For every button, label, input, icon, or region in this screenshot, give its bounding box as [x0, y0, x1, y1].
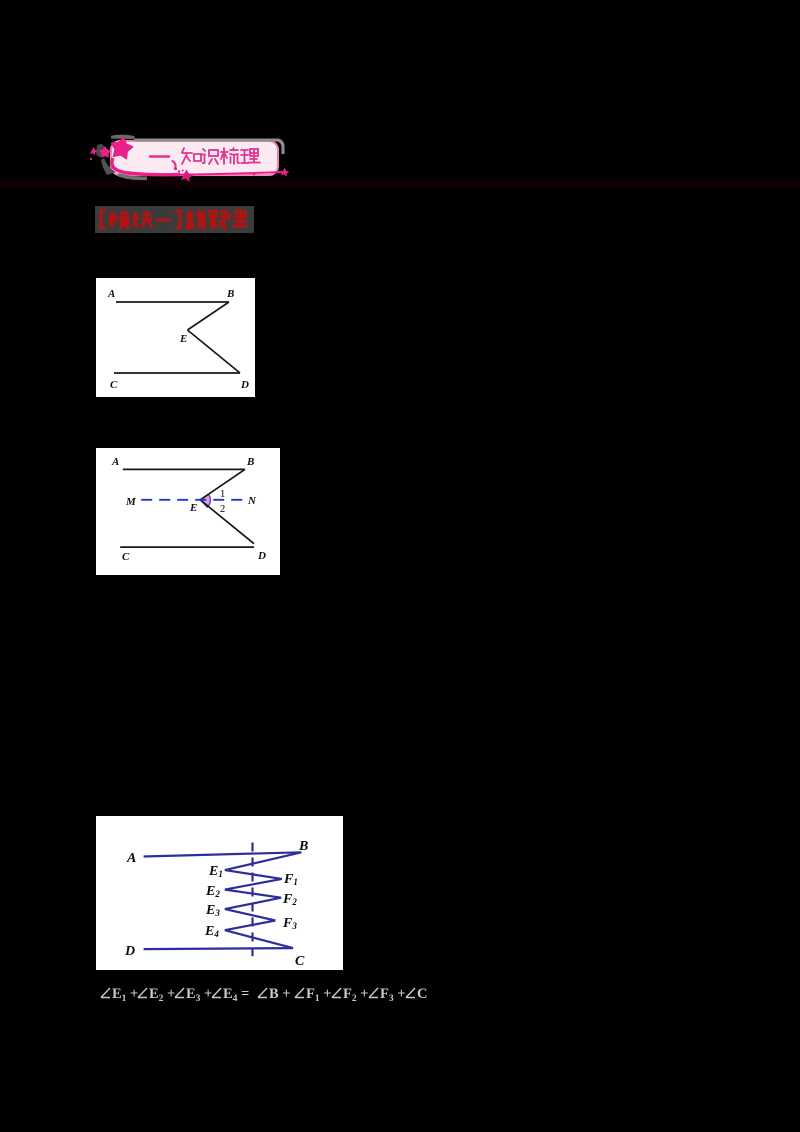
dashed MN line: [141, 499, 242, 501]
一: [156, 219, 171, 222]
svg-text:D: D: [257, 550, 266, 562]
svg-text:E4: E4: [204, 924, 219, 939]
angle symbols: [101, 988, 110, 998]
angle wedge 1/2 at E: [200, 494, 210, 507]
理: [241, 150, 249, 163]
模: [109, 211, 118, 228]
svg-text:F1 +: F1 +: [306, 986, 332, 1004]
svg-text:A: A: [111, 456, 119, 468]
line B-E: [200, 469, 245, 499]
svg-text:B: B: [246, 456, 254, 468]
svg-text:1: 1: [220, 489, 225, 500]
svg-text:C: C: [295, 954, 305, 969]
svg-text:A: A: [107, 288, 115, 300]
figure 3 box: [96, 816, 343, 970]
蹄: [210, 211, 217, 227]
header pill: [110, 140, 279, 176]
svg-text:N: N: [247, 495, 257, 507]
red module title on gray band: [95, 206, 254, 233]
、: [173, 161, 176, 166]
gray fringe above star: [111, 135, 135, 139]
header star decoration (drawn over pill): [84, 126, 299, 192]
pill text 一、知识梳理 (drawn glyphs): [149, 146, 263, 168]
line AB: [116, 301, 229, 303]
svg-text:C: C: [110, 379, 118, 391]
一: [150, 155, 169, 157]
svg-text:E: E: [179, 333, 187, 345]
swoosh tail: [112, 158, 180, 175]
svg-text:A: A: [126, 851, 136, 866]
gray under pill bottom-left: [118, 173, 147, 180]
line CD: [120, 546, 254, 548]
svg-text:E2: E2: [205, 884, 220, 899]
svg-text:2: 2: [220, 504, 225, 515]
small star left: [99, 146, 111, 158]
figure 1 box: [96, 278, 255, 397]
svg-text:E2 +: E2 +: [149, 986, 175, 1004]
svg-text:B +: B +: [269, 986, 291, 1002]
svg-text:C: C: [122, 551, 130, 563]
svg-text:E: E: [189, 502, 197, 514]
svg-text:E1 +: E1 +: [112, 986, 138, 1004]
svg-text:C: C: [417, 986, 427, 1002]
svg-text:F1: F1: [283, 872, 298, 887]
zigzag B-E1-F1-E2-F2-E3-F3-E4-C: [225, 852, 301, 948]
svg-text:F3 +: F3 +: [380, 986, 406, 1004]
svg-text:B: B: [298, 839, 308, 854]
tiny sparkles top-left: [90, 147, 98, 155]
svg-text:M: M: [125, 496, 137, 508]
svg-text:B: B: [226, 288, 234, 300]
svg-text:E3 +: E3 +: [186, 986, 212, 1004]
猪: [186, 211, 194, 228]
【: [101, 211, 106, 228]
梳: [221, 148, 228, 164]
svg-text:E1: E1: [208, 864, 223, 879]
faint maroon rule under header: [0, 179, 800, 187]
tiny trailing stars / dots: [174, 167, 177, 170]
svg-text:F3: F3: [282, 916, 297, 931]
块: [132, 212, 139, 225]
figure 2 box: [96, 448, 280, 575]
型: [233, 210, 247, 226]
svg-text:F2 +: F2 +: [343, 986, 369, 1004]
svg-text:F2: F2: [282, 892, 297, 907]
line AB: [123, 468, 245, 470]
big star: [111, 136, 134, 160]
svg-text:D: D: [124, 944, 135, 959]
line CD: [114, 372, 240, 374]
识: [202, 149, 205, 163]
line B-E: [188, 302, 230, 330]
svg-text:E3: E3: [205, 903, 220, 918]
gray smudge left of star: [96, 144, 104, 157]
dashed vertical transversal: [251, 843, 253, 957]
line D-C: [144, 948, 294, 949]
svg-text:E4 =: E4 =: [223, 986, 249, 1004]
line A-B: [144, 852, 302, 856]
formula line (light on black): [99, 982, 444, 1006]
svg-text:D: D: [240, 379, 249, 391]
】: [175, 211, 180, 228]
gray fringe below star / left of tail: [101, 158, 116, 175]
line E-D: [200, 500, 254, 544]
gray shadow top-right corner of pill: [134, 139, 285, 155]
line E-D: [188, 330, 241, 373]
知: [182, 148, 192, 164]
